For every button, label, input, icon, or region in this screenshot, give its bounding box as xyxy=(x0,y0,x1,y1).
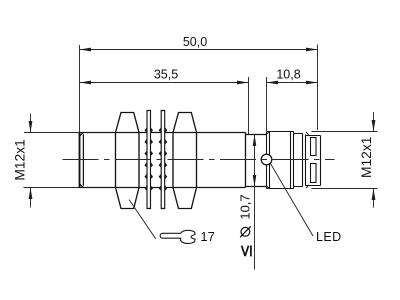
small cylinder (diameter 10.7) xyxy=(246,135,267,187)
10.8 arrows xyxy=(267,81,279,85)
leader wrench 17 xyxy=(129,200,156,239)
M12x1 left: extension lines xyxy=(24,133,80,188)
arrowheads xyxy=(29,48,376,200)
M12x1 left: dim line segments xyxy=(30,114,32,208)
dia 10.7 dim line xyxy=(254,135,256,270)
svg-text:M12x1: M12x1 xyxy=(359,137,374,178)
centerline xyxy=(63,159,335,161)
end cap corner chamfers xyxy=(306,132,309,188)
wire: thread barrel outline xyxy=(79,133,246,188)
svg-text:35,5: 35,5 xyxy=(154,68,178,82)
LED hole xyxy=(261,154,272,165)
extension line left (50.0 / 35.5) xyxy=(79,45,81,132)
svg-text:17: 17 xyxy=(200,229,214,244)
lock washer 1 xyxy=(144,111,153,209)
M12x1 right: extension lines xyxy=(312,132,378,189)
shoulder step xyxy=(245,133,247,188)
dia 10.7 arrows xyxy=(253,135,257,147)
connector end cap xyxy=(306,136,321,186)
35.5 arrows xyxy=(80,81,92,85)
diameter symbol xyxy=(240,226,251,237)
connector thread section xyxy=(267,132,294,189)
thread chamfer line xyxy=(82,134,84,185)
lock washer 2 xyxy=(159,111,168,209)
connector mid section xyxy=(294,134,306,187)
connector step edge xyxy=(267,132,270,189)
dimension graphics xyxy=(24,45,378,270)
svg-text:LED: LED xyxy=(316,230,342,244)
keyway slot lower xyxy=(311,164,317,183)
hex nut 2 xyxy=(173,113,197,209)
extension line 10.8 xyxy=(266,77,268,131)
M12x1 right: dim line segments xyxy=(373,112,375,208)
keyway slot upper xyxy=(311,138,317,156)
extension line 35.5 xyxy=(248,77,250,134)
svg-text:M12x1: M12x1 xyxy=(13,139,28,180)
svg-text:10,8: 10,8 xyxy=(276,68,300,82)
extension line right end (50.0 / 10.8) xyxy=(317,45,319,131)
M12x1 right arrows xyxy=(372,120,376,132)
text VI xyxy=(242,245,251,256)
M12x1 left arrows xyxy=(29,121,33,133)
svg-text:10,7: 10,7 xyxy=(238,194,253,219)
dim line 35.5 xyxy=(80,82,249,84)
hex nut 1 xyxy=(116,113,140,209)
leader LED xyxy=(270,163,313,236)
thread chamfer corners xyxy=(80,133,84,188)
svg-text:50,0: 50,0 xyxy=(183,35,207,49)
50.0 arrows xyxy=(80,48,92,52)
dim line 50.0 xyxy=(80,49,318,51)
wrench icon xyxy=(160,230,195,243)
dim line 10.8 xyxy=(267,82,318,84)
